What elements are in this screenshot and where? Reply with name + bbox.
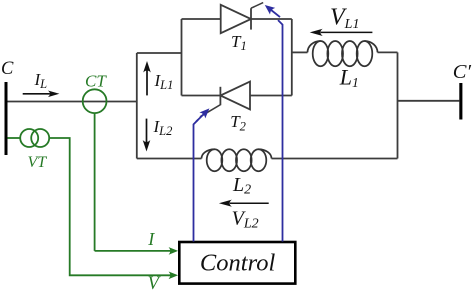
svg-text:C′: C′ (453, 61, 472, 83)
svg-text:Control: Control (200, 250, 276, 277)
svg-text:I: I (147, 229, 155, 249)
svg-text:VT: VT (28, 154, 48, 171)
svg-text:CT: CT (85, 72, 107, 91)
svg-text:C: C (1, 59, 14, 79)
